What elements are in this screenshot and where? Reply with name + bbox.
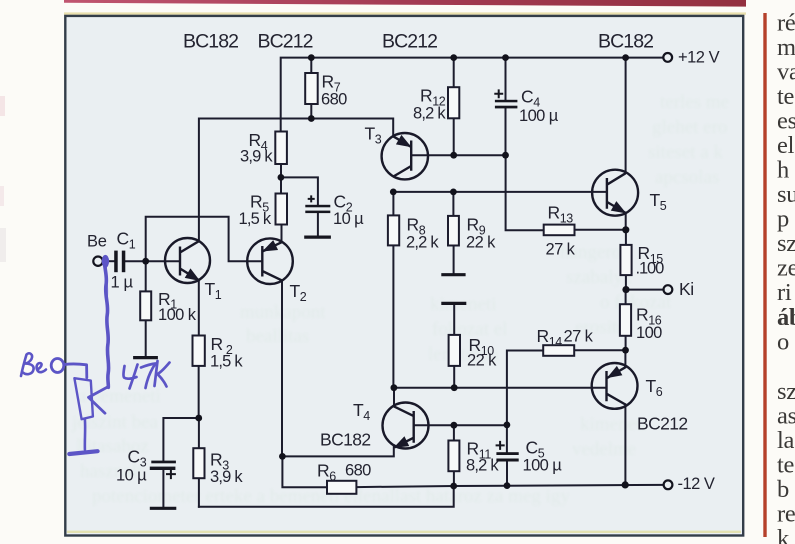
svg-text:8,2 k: 8,2 k xyxy=(466,457,499,475)
svg-text:1,5 k: 1,5 k xyxy=(210,353,243,371)
svg-text:p: p xyxy=(777,206,789,233)
junction R7 bottom xyxy=(308,115,315,122)
svg-text:BC182: BC182 xyxy=(320,430,371,450)
C4 polarity plus xyxy=(494,89,503,98)
wire R7 top lead xyxy=(310,58,312,73)
svg-text:2,2 k: 2,2 k xyxy=(406,234,439,252)
wire node B to C2 xyxy=(281,177,318,204)
svg-text:su: su xyxy=(777,181,795,208)
wire node R2-R3 to C3 xyxy=(163,418,198,461)
wire T6 emitter lead xyxy=(624,350,626,367)
handwritten label Be xyxy=(21,353,34,376)
svg-text:k: k xyxy=(777,525,790,544)
svg-text:1 µ: 1 µ xyxy=(111,274,134,292)
svg-text:.100: .100 xyxy=(636,260,665,278)
wire R16 top lead xyxy=(625,290,627,305)
terminal -12V xyxy=(664,480,673,489)
ground above R10 xyxy=(441,302,466,305)
svg-text:680: 680 xyxy=(345,462,371,480)
handwritten value 47K xyxy=(123,365,137,389)
capacitor C4 xyxy=(495,100,518,103)
wire T3 collector net to T5 base xyxy=(393,191,607,193)
wire C3 bottom lead to ground xyxy=(162,470,164,507)
resistor R12 xyxy=(448,87,459,118)
svg-text:3,9 k: 3,9 k xyxy=(210,468,243,486)
resistor R14 xyxy=(543,345,574,356)
svg-text:BC212: BC212 xyxy=(637,414,688,434)
resistor R13 xyxy=(544,225,575,236)
wire C5 bottom lead xyxy=(506,462,508,486)
svg-text:áb: áb xyxy=(777,304,795,331)
wire R11 bottom lead xyxy=(453,471,455,486)
svg-text:+12 V: +12 V xyxy=(678,49,720,67)
junction R16 bottom xyxy=(622,347,629,354)
transistor T2 (BC212 pnp) xyxy=(247,238,293,284)
svg-text:3,9 k: 3,9 k xyxy=(240,148,273,166)
resistor R6 xyxy=(327,481,356,494)
terminal Be input xyxy=(93,257,102,266)
svg-text:-12 V: -12 V xyxy=(678,475,715,493)
wire R13 right lead xyxy=(575,229,626,231)
svg-text:sz: sz xyxy=(777,230,795,257)
svg-text:100 µ: 100 µ xyxy=(523,457,563,475)
terminal +12V xyxy=(663,53,672,62)
wire T2 collector long drop xyxy=(281,280,283,456)
wire T6 collector to -12V rail xyxy=(624,404,626,485)
svg-text:el: el xyxy=(777,132,795,159)
svg-text:BC212: BC212 xyxy=(382,31,437,53)
junction T6 collector rail xyxy=(622,481,629,488)
wire C1 to input node xyxy=(125,260,146,262)
wire R11 top lead xyxy=(453,425,455,440)
wire C5 top lead xyxy=(506,425,508,453)
svg-text:es: es xyxy=(777,108,795,135)
svg-text:va: va xyxy=(777,59,795,86)
svg-text:o: o xyxy=(777,329,789,356)
wire bottom return R3 to -12V rail xyxy=(199,486,454,507)
svg-text:apcsolas: apcsolas xyxy=(655,167,719,188)
resistor R1 xyxy=(140,291,151,320)
svg-text:BC182: BC182 xyxy=(183,31,238,53)
transistor T4 (BC182 npn) xyxy=(383,403,429,449)
wire R10 top lead from ground xyxy=(453,305,455,335)
junction R7 top xyxy=(308,54,315,61)
junction node B (R4-R5) xyxy=(278,174,285,181)
wire R2 bottom lead xyxy=(198,366,200,418)
svg-text:ré: ré xyxy=(777,10,795,37)
C2 polarity plus xyxy=(308,195,315,202)
wire R16 bottom lead xyxy=(625,336,627,350)
wire R15 bottom lead to Ki node xyxy=(625,275,627,290)
svg-text:glehet ero: glehet ero xyxy=(652,117,727,138)
potentiometer body (handwritten) xyxy=(74,378,93,419)
wire R12 top lead xyxy=(453,58,455,88)
svg-text:10 µ: 10 µ xyxy=(333,210,364,228)
svg-text:Be: Be xyxy=(87,233,107,251)
wire input coupling from Be terminal xyxy=(103,260,115,262)
junction Ki node xyxy=(622,286,629,293)
wire T4 collector lead xyxy=(393,388,395,407)
junction R9 top xyxy=(450,189,457,196)
svg-text:8,2 k: 8,2 k xyxy=(413,105,446,123)
resistor R9 xyxy=(448,216,459,246)
junction C5 bottom rail xyxy=(504,482,511,489)
svg-text:h: h xyxy=(777,157,789,184)
junction R12 top xyxy=(450,54,457,61)
handwritten potentiometer ground lead xyxy=(84,420,87,450)
wire C2 bottom lead to ground xyxy=(317,213,319,236)
resistor R3 xyxy=(193,448,204,478)
junction T3 collector xyxy=(390,189,397,196)
svg-text:ze: ze xyxy=(777,255,795,282)
svg-text:terles me: terles me xyxy=(660,92,729,113)
junction R10 bottom xyxy=(451,384,458,391)
wire T5 emitter lead xyxy=(625,213,627,230)
wire T1 emitter lead xyxy=(198,280,200,335)
wire R8 top lead xyxy=(392,192,394,216)
wire R3 bottom lead xyxy=(198,478,200,507)
svg-text:680: 680 xyxy=(321,91,347,109)
potentiometer wiper arrow (handwritten) xyxy=(89,387,109,414)
junction T5 collector rail xyxy=(622,54,629,61)
transistor T5 (BC182 npn) xyxy=(592,170,638,216)
transistor T3 (BC212 pnp) xyxy=(382,133,428,179)
svg-text:BC182: BC182 xyxy=(598,31,653,53)
junction R12 bottom xyxy=(450,152,457,159)
ground under C3 xyxy=(150,507,177,510)
junction T5 emitter xyxy=(622,226,629,233)
terminal Ki xyxy=(664,285,673,294)
svg-text:munkapont: munkapont xyxy=(240,302,326,323)
junction C4 top xyxy=(502,54,509,61)
junction R11 top xyxy=(451,422,458,429)
svg-text:as: as xyxy=(777,403,795,430)
svg-text:re: re xyxy=(777,501,795,528)
wire T4 base net xyxy=(414,424,507,426)
svg-text:ri: ri xyxy=(777,279,792,306)
wire T1 collector net (T1 to R7 foot to T3 emitter) xyxy=(199,119,393,242)
wire R1 bottom lead to ground xyxy=(145,320,147,356)
wire R1 top lead xyxy=(145,261,147,291)
wire +12V rail xyxy=(281,58,664,132)
wire R12 bottom lead xyxy=(453,118,455,155)
wire -12V rail xyxy=(356,485,663,487)
svg-text:100 k: 100 k xyxy=(158,306,197,324)
svg-text:m: m xyxy=(777,34,795,61)
svg-text:b: b xyxy=(777,476,789,503)
capacitor C2 xyxy=(305,205,330,208)
wire T4 collector net to T6 base xyxy=(394,387,607,389)
svg-text:10 µ: 10 µ xyxy=(116,467,147,485)
resistor R11 xyxy=(448,441,459,472)
junction R11 bottom rail xyxy=(450,483,457,490)
wire R5 bottom to T2 emitter xyxy=(281,225,283,243)
svg-text:1,5 k: 1,5 k xyxy=(239,210,272,228)
wire C4 top lead xyxy=(505,58,507,100)
svg-text:27 k: 27 k xyxy=(546,241,576,259)
svg-text:beallitas: beallitas xyxy=(246,326,309,347)
wire R4 bottom to R5 top xyxy=(280,164,282,194)
capacitor C1 xyxy=(114,251,118,273)
svg-text:la: la xyxy=(777,427,795,454)
wire C4 bottom lead xyxy=(505,108,507,155)
ground under R1 xyxy=(133,356,158,359)
svg-text:22 k: 22 k xyxy=(466,234,496,252)
wire input node to T1 base xyxy=(146,260,180,262)
junction C5 top xyxy=(504,422,511,429)
junction input node xyxy=(142,258,149,265)
wire R3 top lead xyxy=(198,418,200,448)
svg-text:Ki: Ki xyxy=(679,279,694,299)
junction T2 collector / T4 emitter xyxy=(279,453,286,460)
junction R2-R3 node xyxy=(195,415,202,422)
ground under R9 xyxy=(441,273,465,276)
capacitor C5 xyxy=(496,452,518,455)
wire input node over to T2 base xyxy=(146,217,263,261)
resistor R16 xyxy=(620,304,631,336)
wire R14 left lead down to C5 node xyxy=(507,351,543,425)
wire R10 bottom lead xyxy=(453,366,455,388)
resistor R5 xyxy=(276,194,288,225)
resistor R4 xyxy=(275,132,287,165)
transistor T1 (BC182 npn) xyxy=(165,238,210,283)
handwritten terminal circle xyxy=(51,359,64,373)
resistor R10 xyxy=(449,335,460,366)
svg-text:siteset a k: siteset a k xyxy=(648,142,723,163)
handwritten wire from circle to potentiometer xyxy=(65,364,87,378)
handwritten ground bar xyxy=(69,451,97,454)
wire R7 bottom lead to node T1-collector xyxy=(310,104,312,119)
wire node A to R13 left lead xyxy=(506,155,544,230)
svg-text:100: 100 xyxy=(636,324,662,342)
wire Ki output xyxy=(626,289,664,291)
C5 polarity plus xyxy=(496,441,505,450)
svg-text:27 k: 27 k xyxy=(564,328,594,346)
svg-text:te: te xyxy=(777,452,795,479)
svg-text:te: te xyxy=(777,83,795,110)
wire R8 bottom long lead xyxy=(392,245,394,387)
wire R14 right lead xyxy=(574,349,625,351)
ground under C2 xyxy=(304,236,331,239)
capacitor C3 xyxy=(151,461,176,464)
svg-text:vedelme: vedelme xyxy=(572,439,636,460)
junction T4 collector xyxy=(391,384,398,391)
handwritten ink blob at Be terminal xyxy=(102,255,109,268)
handwritten wire input to wiper xyxy=(104,258,108,388)
wire T5 collector to rail xyxy=(625,58,627,173)
wire R6 left lead xyxy=(282,456,327,487)
resistor R15 xyxy=(620,245,631,275)
svg-text:22 k: 22 k xyxy=(467,352,497,370)
resistor R7 xyxy=(305,73,318,104)
C3 polarity plus xyxy=(166,469,176,479)
junction C4 bottom xyxy=(502,152,509,159)
wire T3 base net xyxy=(411,154,505,156)
wire T4 emitter to T2 collector node xyxy=(282,445,393,456)
resistor R2 xyxy=(193,336,205,366)
resistor R8 xyxy=(388,215,399,245)
wire R15 top lead xyxy=(625,230,627,245)
wire R9 top lead xyxy=(452,192,454,216)
svg-text:sz: sz xyxy=(777,378,795,405)
wire R9 bottom lead to ground xyxy=(453,246,455,274)
svg-text:100 µ: 100 µ xyxy=(519,107,559,125)
transistor T6 (BC212 pnp) xyxy=(592,363,638,409)
svg-text:BC212: BC212 xyxy=(258,31,313,53)
